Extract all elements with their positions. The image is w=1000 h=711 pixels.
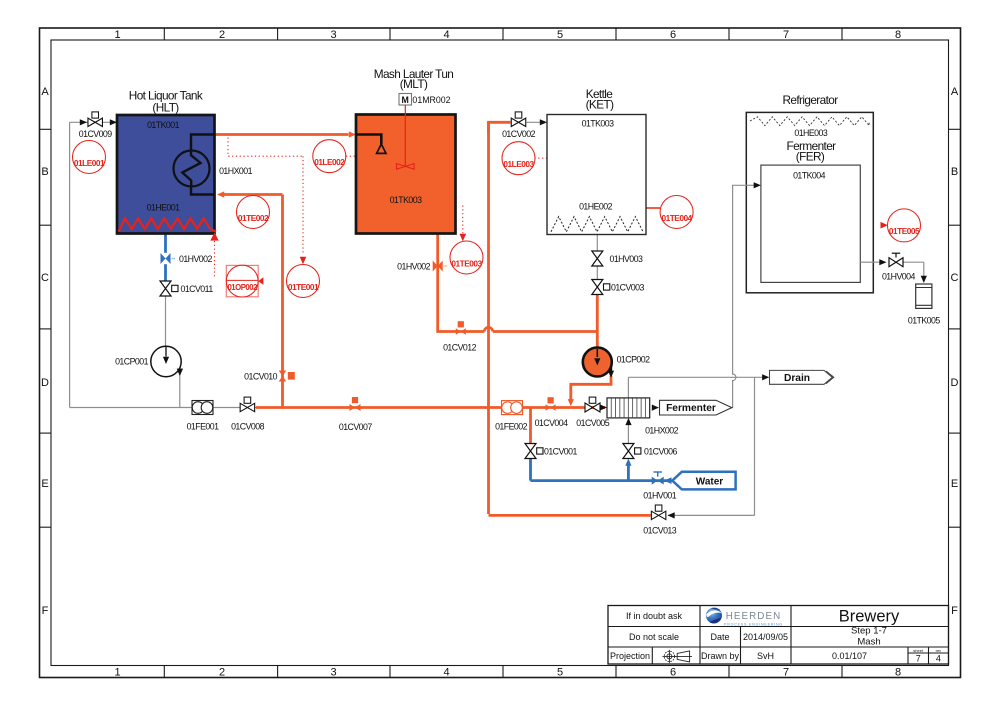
svg-text:Brewery: Brewery — [839, 608, 900, 626]
svg-text:E: E — [951, 478, 958, 490]
svg-text:(KET): (KET) — [586, 98, 614, 112]
svg-text:If in doubt ask: If in doubt ask — [626, 611, 683, 621]
svg-text:Mash: Mash — [857, 637, 880, 648]
svg-text:4: 4 — [443, 666, 449, 678]
svg-text:5: 5 — [557, 666, 563, 678]
svg-text:HEERDEN: HEERDEN — [726, 611, 782, 622]
svg-text:Do not scale: Do not scale — [629, 632, 679, 642]
svg-text:01HX001: 01HX001 — [219, 166, 252, 176]
svg-text:B: B — [951, 166, 958, 178]
svg-text:SvH: SvH — [757, 651, 774, 661]
svg-text:PROCESS ENGINEERING: PROCESS ENGINEERING — [724, 622, 783, 626]
svg-text:M: M — [402, 95, 409, 105]
svg-text:01MR002: 01MR002 — [412, 95, 450, 105]
svg-text:01TK003: 01TK003 — [390, 195, 423, 205]
svg-text:5: 5 — [557, 29, 563, 41]
svg-text:8: 8 — [895, 666, 901, 678]
svg-text:01CV006: 01CV006 — [644, 446, 677, 456]
svg-text:4: 4 — [936, 653, 941, 663]
svg-text:7: 7 — [783, 29, 789, 41]
svg-text:01TK005: 01TK005 — [908, 316, 941, 326]
svg-text:(FER): (FER) — [796, 150, 825, 164]
svg-text:F: F — [42, 605, 49, 617]
svg-text:(HLT): (HLT) — [152, 101, 179, 115]
svg-text:sheet: sheet — [913, 648, 924, 653]
svg-text:01HV001: 01HV001 — [643, 490, 676, 500]
svg-text:01CV005: 01CV005 — [576, 418, 609, 428]
svg-text:01OP002: 01OP002 — [227, 283, 258, 292]
svg-text:Date: Date — [710, 632, 729, 642]
svg-text:01HE003: 01HE003 — [794, 128, 827, 138]
svg-text:01LE003: 01LE003 — [503, 159, 534, 169]
svg-text:01LE001: 01LE001 — [74, 158, 105, 168]
svg-text:8: 8 — [895, 29, 901, 41]
svg-text:01CV010: 01CV010 — [244, 371, 277, 381]
svg-text:0.01/107: 0.01/107 — [832, 651, 867, 661]
svg-text:7: 7 — [916, 653, 921, 663]
svg-text:01CP001: 01CP001 — [115, 356, 148, 366]
svg-text:3: 3 — [330, 666, 336, 678]
svg-text:Water: Water — [696, 476, 724, 487]
svg-text:01HV004: 01HV004 — [882, 272, 915, 282]
svg-text:01TE004: 01TE004 — [662, 213, 693, 223]
svg-text:01CV013: 01CV013 — [643, 525, 676, 535]
svg-text:Step 1-7: Step 1-7 — [851, 626, 887, 637]
svg-text:Refrigerator: Refrigerator — [782, 93, 838, 107]
svg-text:6: 6 — [670, 666, 676, 678]
svg-text:01CV001: 01CV001 — [544, 446, 577, 456]
svg-text:01CV012: 01CV012 — [443, 343, 476, 353]
svg-text:01TE001: 01TE001 — [288, 282, 319, 292]
svg-text:Drain: Drain — [784, 373, 810, 384]
svg-text:01TE002: 01TE002 — [238, 213, 269, 223]
svg-text:01HV003: 01HV003 — [610, 254, 643, 264]
svg-text:Projection: Projection — [610, 651, 650, 661]
svg-text:01CV011: 01CV011 — [181, 284, 214, 294]
svg-text:01CV009: 01CV009 — [79, 129, 112, 139]
svg-text:01CV004: 01CV004 — [535, 418, 568, 428]
svg-text:1: 1 — [114, 29, 120, 41]
svg-text:C: C — [41, 272, 49, 284]
svg-text:01CV008: 01CV008 — [231, 422, 264, 432]
svg-text:B: B — [41, 166, 48, 178]
svg-text:E: E — [41, 478, 48, 490]
svg-text:4: 4 — [443, 29, 449, 41]
svg-text:2: 2 — [219, 29, 225, 41]
svg-text:01TE003: 01TE003 — [451, 258, 482, 268]
svg-text:rev: rev — [936, 648, 942, 653]
svg-text:Fermenter: Fermenter — [666, 403, 716, 414]
svg-text:D: D — [951, 377, 959, 389]
svg-text:01FE002: 01FE002 — [495, 421, 528, 431]
svg-text:F: F — [951, 605, 958, 617]
svg-text:1: 1 — [114, 666, 120, 678]
svg-text:01CP002: 01CP002 — [617, 355, 650, 365]
svg-text:01LE002: 01LE002 — [314, 157, 345, 167]
svg-text:01HX002: 01HX002 — [645, 426, 678, 436]
svg-text:2: 2 — [219, 666, 225, 678]
svg-text:A: A — [951, 86, 959, 98]
svg-text:01FE001: 01FE001 — [187, 422, 220, 432]
svg-text:6: 6 — [670, 29, 676, 41]
svg-text:2014/09/05: 2014/09/05 — [743, 632, 788, 642]
svg-text:01CV003: 01CV003 — [611, 283, 644, 293]
svg-text:01TK003: 01TK003 — [582, 119, 615, 129]
svg-text:Drawn by: Drawn by — [701, 651, 740, 661]
svg-text:01HE001: 01HE001 — [147, 202, 180, 212]
svg-text:A: A — [41, 86, 49, 98]
svg-text:01TK004: 01TK004 — [793, 170, 826, 180]
svg-text:01CV007: 01CV007 — [339, 422, 372, 432]
svg-text:01HV002: 01HV002 — [179, 254, 212, 264]
svg-text:3: 3 — [330, 29, 336, 41]
svg-text:01TE005: 01TE005 — [889, 226, 920, 236]
svg-text:(MLT): (MLT) — [400, 77, 428, 91]
svg-text:01HV002: 01HV002 — [397, 262, 430, 272]
svg-text:7: 7 — [783, 666, 789, 678]
svg-text:01HE002: 01HE002 — [579, 201, 612, 211]
svg-text:01CV002: 01CV002 — [502, 129, 535, 139]
svg-text:01TK001: 01TK001 — [147, 120, 180, 130]
svg-text:D: D — [41, 377, 49, 389]
svg-text:C: C — [951, 272, 959, 284]
